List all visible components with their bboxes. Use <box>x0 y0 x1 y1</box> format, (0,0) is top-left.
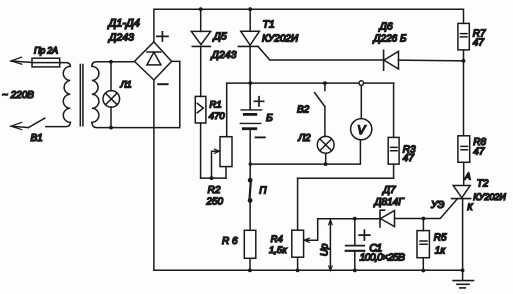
svg-text:Д6: Д6 <box>379 20 393 32</box>
transformer Тр primary winding <box>63 66 70 122</box>
svg-text:R 6: R 6 <box>222 236 238 247</box>
wire secondary top to bridge <box>92 62 135 67</box>
resistor R1 <box>195 96 206 178</box>
resistor R7 <box>458 23 469 61</box>
svg-text:Д1-Д4: Д1-Д4 <box>107 18 140 30</box>
wire lamp leads <box>110 62 112 128</box>
svg-text:Л1: Л1 <box>120 79 132 89</box>
node Л2 bottom <box>324 162 328 166</box>
node R5 top <box>422 217 426 221</box>
node lamp top <box>109 60 113 64</box>
svg-text:А: А <box>464 171 471 181</box>
svg-text:47: 47 <box>473 147 485 158</box>
wire right column <box>463 61 465 136</box>
switch В2 <box>315 83 325 136</box>
svg-text:Д814Г: Д814Г <box>374 197 406 208</box>
node R6 bottom <box>248 269 252 273</box>
potentiometer R4 <box>292 178 318 270</box>
node C1 bottom <box>353 269 357 273</box>
bridge rectifier Д1-Д4 <box>135 42 172 80</box>
label - battery <box>256 136 265 138</box>
svg-text:100,0×25В: 100,0×25В <box>360 251 406 263</box>
label + C1 <box>359 230 370 240</box>
svg-text:Д243: Д243 <box>211 49 237 61</box>
svg-text:В2: В2 <box>297 105 310 116</box>
svg-text:R5: R5 <box>434 232 447 243</box>
wire top rail <box>154 9 464 42</box>
svg-text:250: 250 <box>205 196 223 207</box>
switch В1 <box>11 118 70 129</box>
thyristor Т1 <box>238 9 383 109</box>
svg-text:КУ202И: КУ202И <box>262 33 299 44</box>
resistor R8 <box>458 136 470 186</box>
svg-text:Пр 2А: Пр 2А <box>34 46 58 56</box>
transformer Тр secondary winding <box>92 66 99 122</box>
resistor R3 <box>388 83 399 164</box>
svg-text:Т1: Т1 <box>263 19 275 31</box>
resistor R5 <box>417 219 429 271</box>
node R4 bottom <box>296 269 300 273</box>
svg-text:Б: Б <box>266 112 273 124</box>
lamp Л1 <box>103 91 120 108</box>
wire bridge bottom to ground rail <box>153 80 155 270</box>
svg-text:~ 220В: ~ 220В <box>2 90 34 101</box>
wire middle rail <box>227 83 394 137</box>
diode Д5 <box>191 9 210 96</box>
wire rail1 lamp circuit bottom <box>250 140 360 164</box>
svg-text:R1: R1 <box>210 99 222 110</box>
lamp Л2 <box>317 136 334 164</box>
wire AC line 1 with arrow <box>11 57 32 64</box>
svg-text:КУ202И: КУ202И <box>473 192 506 202</box>
wire R4/R3 rail <box>298 164 394 178</box>
svg-text:Д5: Д5 <box>213 31 227 43</box>
thyristor Т2 <box>423 186 470 271</box>
capacitor C1 <box>346 219 365 271</box>
node Д5 anode <box>199 7 203 11</box>
battery Б <box>240 83 261 178</box>
connector П <box>248 178 253 230</box>
svg-text:В1: В1 <box>31 133 43 144</box>
svg-text:1к: 1к <box>435 246 447 257</box>
node Д6-R7 junction <box>462 59 466 63</box>
svg-text:47: 47 <box>403 153 415 164</box>
node battery top rail junction <box>248 81 252 85</box>
terminal voltmeter top <box>359 81 364 86</box>
svg-text:R4: R4 <box>271 234 283 245</box>
label + battery <box>254 97 263 106</box>
node battery rail1 junction <box>249 162 252 165</box>
Uр measurement arrow <box>329 220 333 271</box>
svg-text:Д7: Д7 <box>382 185 396 196</box>
wire secondary bottom rail to bridge right vertex <box>92 61 180 127</box>
svg-text:Т2: Т2 <box>477 178 489 189</box>
voltmeter V <box>351 85 372 139</box>
svg-text:Л2: Л2 <box>297 133 311 144</box>
ground <box>453 270 473 288</box>
node lamp bottom <box>109 126 113 130</box>
node R2 wiper junction <box>210 176 214 180</box>
svg-text:К: К <box>467 202 473 212</box>
svg-text:П: П <box>259 186 267 197</box>
node rail end <box>461 269 465 273</box>
potentiometer R2 <box>201 137 232 178</box>
label + bridge <box>157 32 168 41</box>
fuse Пр 2А <box>32 58 60 67</box>
svg-text:470: 470 <box>209 111 226 122</box>
node В2 top <box>323 81 327 85</box>
svg-text:47: 47 <box>473 37 485 48</box>
label - bridge <box>158 83 167 85</box>
node R5 bottom <box>421 269 425 273</box>
svg-text:V: V <box>357 123 366 137</box>
diode Д6 <box>384 50 464 70</box>
svg-text:1,5к: 1,5к <box>269 245 287 256</box>
svg-text:R2: R2 <box>208 185 221 196</box>
svg-text:Д226 Б: Д226 Б <box>373 33 408 44</box>
wire fuse to transformer <box>60 63 71 67</box>
svg-text:Д243: Д243 <box>108 32 134 44</box>
wire bottom rail <box>154 269 463 271</box>
node C1 top <box>353 217 357 221</box>
svg-text:УЭ: УЭ <box>430 200 445 211</box>
resistor R6 <box>244 230 256 270</box>
svg-text:Uр: Uр <box>319 243 330 256</box>
zener diode Д7 <box>318 210 424 227</box>
transformer core <box>80 65 83 126</box>
node Т1 anode <box>248 7 252 11</box>
